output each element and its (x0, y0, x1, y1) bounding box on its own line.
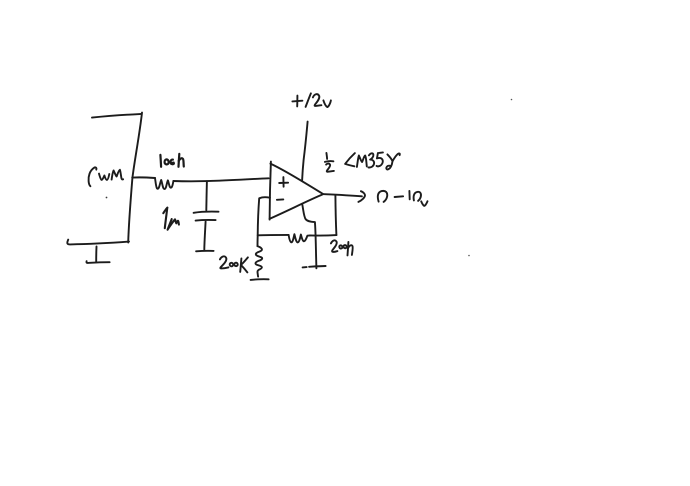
label 1/2 LM358 (325, 152, 400, 171)
label 200K (220, 256, 248, 272)
label 0-10v (378, 191, 428, 206)
resistor R3 200K (255, 246, 262, 277)
wire: inverting node vertical (258, 198, 260, 246)
wire: feedback bottom rail left (258, 234, 289, 236)
ground (C1) (196, 250, 214, 252)
op-amp V- pin wire to ground (302, 205, 316, 269)
wire: feedback rail right (310, 234, 336, 236)
output wire with arrow (323, 191, 365, 202)
wire: R1 to node A to op-amp + input (173, 178, 268, 181)
wire: feedback right leg (335, 195, 336, 235)
ground (PWM) (86, 247, 109, 263)
capacitor C1 (194, 181, 219, 249)
label +12v (292, 93, 331, 107)
label 1u (163, 208, 179, 230)
wire: inverting input stub (259, 197, 270, 198)
PWM source box (67, 113, 142, 245)
label 200k feedback (331, 240, 353, 255)
label 100k (160, 154, 183, 167)
resistor R2 200k feedback (289, 234, 311, 242)
wire: PWM output to R1 (132, 176, 155, 179)
ground (R3) (251, 278, 269, 281)
ground (op-amp V-) (303, 266, 326, 267)
label PWM (89, 167, 124, 186)
op-amp + pin marker (279, 177, 288, 187)
resistor R1 100k (155, 178, 173, 189)
op-amp U1 triangle (270, 162, 323, 220)
+12V supply wire (302, 122, 308, 181)
op-amp - pin marker (277, 198, 283, 200)
